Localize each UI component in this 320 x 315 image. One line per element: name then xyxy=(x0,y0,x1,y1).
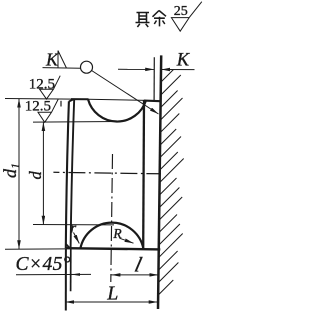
weld leader arrow xyxy=(92,71,159,115)
roller top edge right segment xyxy=(144,100,161,103)
extension line d top xyxy=(33,121,118,124)
leader R xyxy=(120,238,134,243)
svg-text:25: 25 xyxy=(174,4,188,19)
text 其余 (drawn strokes) xyxy=(136,11,167,28)
weld-all-around circle xyxy=(81,61,93,73)
extension line chamfer below xyxy=(70,248,72,291)
dimension line l xyxy=(111,274,158,276)
roller top edge (left, thick over extension) xyxy=(71,98,89,100)
roller right face line xyxy=(142,100,145,248)
chamfer diagonal top left xyxy=(69,99,74,101)
extension line d bottom xyxy=(33,224,114,226)
roughness symbol 12.5 upper xyxy=(40,76,61,99)
extension line d1 top xyxy=(5,99,146,101)
dimension line L xyxy=(65,301,158,303)
dimension line K left part xyxy=(118,68,154,70)
roughness symbol 25 (top right) xyxy=(171,2,201,32)
svg-text:R: R xyxy=(112,226,122,241)
svg-text:K: K xyxy=(176,51,191,71)
weld symbol fillet triangle xyxy=(58,51,67,69)
svg-text:L: L xyxy=(106,282,118,304)
svg-text:12.5: 12.5 xyxy=(29,77,55,93)
svg-text:12.5: 12.5 xyxy=(25,98,51,114)
svg-text:K: K xyxy=(45,49,59,69)
scan stub artifact left of face xyxy=(60,101,62,107)
svg-text:l: l xyxy=(132,253,144,277)
hatching of wall section xyxy=(158,70,183,296)
dimension line d xyxy=(42,122,44,225)
extension line d1 bottom xyxy=(5,248,66,250)
groove arc top xyxy=(88,99,146,121)
extension line left face below xyxy=(65,248,67,310)
svg-text:r: r xyxy=(70,221,76,237)
extension line K left xyxy=(153,57,155,100)
chamfer diagonal bottom left xyxy=(66,244,70,248)
roller bottom edge xyxy=(66,248,160,249)
dimension line K right part xyxy=(161,69,194,71)
groove arc bottom xyxy=(80,223,143,249)
svg-text:d1: d1 xyxy=(0,163,22,178)
svg-text:d: d xyxy=(26,171,45,180)
svg-text:C×45°: C×45° xyxy=(16,254,71,275)
axis center line xyxy=(53,172,160,174)
leader r xyxy=(74,233,80,244)
weld symbol shelf xyxy=(43,67,81,70)
wall section face xyxy=(158,55,161,309)
roller left end face xyxy=(66,101,69,248)
chamfer edge line left xyxy=(71,99,75,248)
roughness symbol 12.5 lower xyxy=(38,99,58,122)
dimension line d1 xyxy=(18,99,20,250)
leader C x 45 xyxy=(16,273,91,275)
groove center line vertical xyxy=(111,154,113,282)
